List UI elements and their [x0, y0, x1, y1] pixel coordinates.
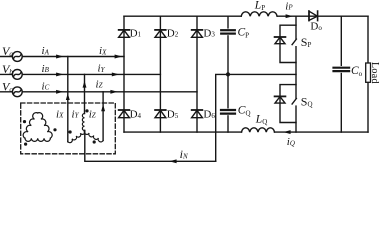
switch SQ branch frame — [280, 85, 296, 123]
svg-text:Va: Va — [2, 44, 13, 58]
wire negative rail bottom — [124, 131, 368, 133]
arrow iA — [56, 55, 63, 59]
capacitor Co — [333, 66, 350, 73]
polarity dot delta bottom — [24, 143, 27, 146]
svg-text:iX: iX — [56, 108, 64, 120]
wye winding right coil — [84, 131, 103, 142]
inductor LP — [241, 12, 277, 16]
source Va — [12, 52, 22, 62]
polarity dot wye left — [69, 130, 72, 133]
capacitor column CP/CQ vertical — [227, 16, 229, 132]
svg-text:D4: D4 — [130, 109, 142, 121]
arrow iC — [56, 90, 63, 94]
svg-text:SP: SP — [301, 35, 312, 49]
arrow iZ — [110, 90, 117, 94]
svg-text:iZ: iZ — [96, 78, 103, 90]
svg-text:CQ: CQ — [238, 105, 251, 118]
wire dropper phase C to transformer — [102, 92, 104, 141]
switch column SP/SQ vertical — [295, 16, 297, 132]
diode bridge leg 3 vertical — [196, 16, 198, 132]
polarity dot wye right — [93, 140, 96, 143]
switch blade SP — [292, 39, 299, 46]
arrow iB — [56, 72, 63, 76]
svg-text:SQ: SQ — [301, 95, 313, 109]
load box — [366, 63, 371, 82]
svg-text:LP: LP — [254, 0, 265, 12]
inductor LQ — [242, 128, 275, 132]
arrow iY — [112, 72, 119, 76]
source Vc — [12, 87, 22, 97]
transformer dashed box — [21, 103, 116, 154]
diode D4 — [119, 110, 130, 118]
source Vb — [12, 70, 22, 80]
diode bridge leg 1 vertical — [123, 16, 125, 132]
capacitor Co column — [340, 16, 342, 132]
diode Do — [309, 11, 318, 21]
svg-text:iA: iA — [42, 45, 50, 57]
svg-text:iN: iN — [180, 147, 188, 161]
svg-text:iZ: iZ — [89, 108, 96, 120]
polarity dot delta left — [23, 120, 26, 123]
diode D5 — [155, 110, 166, 118]
wire positive rail top — [124, 15, 368, 17]
diode D1 — [119, 30, 130, 37]
svg-text:CP: CP — [238, 27, 250, 40]
arrow on dropper C — [101, 104, 105, 111]
wire injection neutral iN — [85, 131, 216, 162]
arrow on dropper B — [83, 81, 87, 88]
wye winding left coil — [68, 131, 85, 143]
svg-text:LQ: LQ — [255, 113, 267, 126]
svg-text:Load: Load — [369, 62, 380, 84]
diode D2 — [155, 30, 166, 37]
switch blade SQ — [292, 99, 299, 106]
delta winding — [23, 113, 38, 139]
diode bridge leg 2 vertical — [159, 16, 161, 132]
wire midpoint horizontal — [216, 74, 296, 161]
svg-text:D2: D2 — [167, 27, 179, 39]
wire dropper phase A to transformer — [67, 57, 69, 142]
arrow iP — [286, 14, 293, 18]
svg-text:iB: iB — [42, 63, 50, 75]
wye winding vertical coil — [82, 114, 84, 131]
svg-text:Vc: Vc — [2, 79, 13, 93]
arrow iX — [115, 55, 122, 59]
diode of SP — [275, 37, 286, 44]
svg-text:iY: iY — [72, 108, 80, 120]
svg-text:Do: Do — [310, 21, 322, 33]
svg-text:D1: D1 — [130, 27, 142, 39]
wire phase B horizontal — [0, 73, 160, 75]
svg-text:iC: iC — [42, 80, 50, 92]
wire dropper phase B to transformer — [84, 74, 86, 113]
svg-text:D3: D3 — [203, 27, 215, 39]
svg-text:D6: D6 — [203, 109, 215, 121]
diode D6 — [192, 110, 203, 118]
polarity dot delta right — [53, 128, 56, 131]
diode of SQ — [275, 96, 286, 103]
load column right — [367, 16, 369, 132]
wire phase C horizontal — [0, 91, 197, 93]
switch SP branch frame — [280, 25, 296, 62]
diode D3 — [192, 30, 203, 37]
node M junction dot — [226, 72, 230, 76]
svg-text:Vb: Vb — [2, 62, 13, 76]
svg-text:D5: D5 — [167, 109, 179, 121]
svg-text:iX: iX — [99, 45, 107, 57]
svg-text:Co: Co — [351, 65, 363, 78]
arrow iQ — [283, 130, 290, 134]
svg-text:iP: iP — [285, 0, 293, 12]
arrow on dropper A — [66, 93, 70, 100]
svg-text:iY: iY — [98, 63, 106, 75]
capacitor CQ — [221, 108, 236, 115]
polarity dot wye top — [85, 109, 88, 112]
svg-text:iQ: iQ — [287, 136, 295, 148]
wire phase A horizontal — [0, 56, 124, 58]
capacitor CP — [221, 29, 236, 36]
arrow iN — [169, 159, 176, 163]
